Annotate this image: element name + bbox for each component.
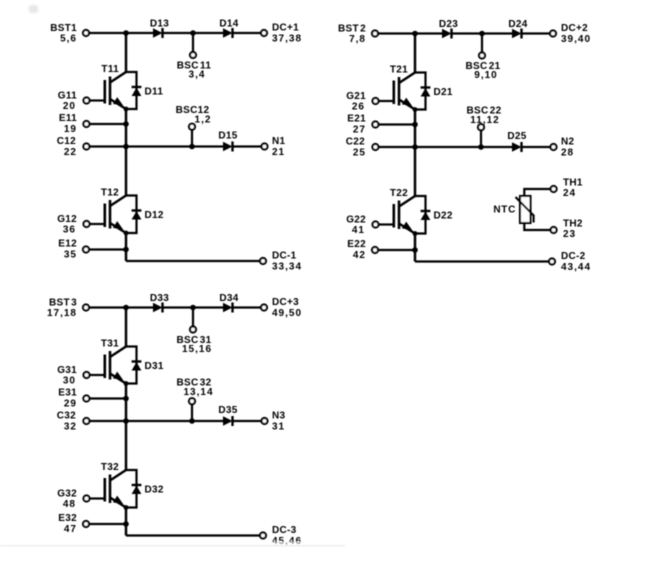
thermistor NTC body [520, 196, 531, 223]
svg-text:D35: D35 [218, 405, 237, 416]
svg-text:G12: G12 [57, 214, 77, 225]
svg-text:N2: N2 [561, 137, 575, 148]
svg-text:D21: D21 [434, 87, 453, 98]
wire BSC3 stub [192, 308, 194, 327]
node E31 junction [123, 396, 129, 402]
terminal BSC 21 pin 9,10 [465, 53, 500, 82]
svg-text:30: 30 [63, 376, 76, 387]
wire E11 lead [90, 123, 126, 125]
svg-text:BST1: BST1 [50, 23, 77, 34]
terminal E32 pin 47 [58, 513, 89, 535]
wire main vertical upper [414, 34, 417, 73]
wire D to DC+ [233, 32, 261, 34]
svg-text:17,18: 17,18 [47, 308, 77, 319]
transistor T31 (IGBT) [101, 339, 126, 384]
node C row BSC junction [189, 418, 195, 424]
terminal DC+3 pin 49,50 [261, 297, 302, 319]
svg-text:26: 26 [352, 102, 365, 113]
wire gate lead T32 [90, 497, 105, 499]
terminal N3 pin 31 [262, 411, 286, 433]
svg-text:D32: D32 [145, 485, 164, 496]
terminal C22 pin 25 [346, 137, 379, 159]
terminal E22 pin 42 [347, 239, 378, 261]
svg-text:19: 19 [64, 124, 77, 135]
svg-text:7,8: 7,8 [349, 34, 366, 45]
wire NTC to TH2 [524, 223, 550, 230]
terminal DC-1 pin 33,34 [260, 251, 302, 273]
terminal C12 pin 22 [57, 136, 90, 158]
svg-text:C12: C12 [57, 136, 76, 147]
wire D35 to N3 [233, 420, 262, 422]
svg-text:G11: G11 [58, 91, 77, 102]
svg-text:13,14: 13,14 [183, 387, 213, 398]
svg-text:DC+2: DC+2 [561, 23, 588, 34]
transistor T12 (IGBT) [101, 188, 126, 234]
node main top junction [412, 31, 418, 37]
wire gate lead T12 [90, 223, 105, 225]
diode D23 [439, 19, 458, 39]
svg-text:TH1: TH1 [563, 178, 583, 189]
svg-text:E21: E21 [347, 114, 366, 125]
terminal BST3 pin 17,18 [47, 298, 89, 320]
svg-text:D12: D12 [145, 210, 164, 221]
svg-text:E12: E12 [58, 239, 77, 250]
terminal N2 pin 28 [551, 137, 575, 159]
terminal DC+1 pin 37,38 [261, 23, 302, 45]
svg-text:DC-2: DC-2 [561, 251, 586, 262]
svg-text:G22: G22 [346, 215, 366, 226]
svg-text:D24: D24 [508, 19, 527, 30]
wire NTC to TH1 [524, 189, 550, 196]
wire DC-2 rail [415, 260, 549, 262]
svg-text:43,44: 43,44 [561, 262, 591, 273]
label NTC [493, 205, 516, 216]
diode D33 [150, 293, 169, 313]
diode D22 branch wire [413, 196, 426, 236]
svg-text:32: 32 [64, 422, 77, 433]
wire E21 lead [379, 123, 415, 125]
wire C32 row [90, 420, 223, 422]
wire main vertical middle [414, 110, 417, 197]
svg-text:G21: G21 [346, 91, 366, 102]
terminal BSC 31 pin 15,16 [176, 327, 212, 356]
wire D15 to N1 [233, 145, 262, 147]
diode D12 branch wire [124, 196, 137, 236]
svg-text:C32: C32 [57, 411, 76, 422]
svg-text:11,12: 11,12 [470, 115, 499, 126]
wire E31 lead [90, 397, 126, 399]
terminal BSC 32 pin 13,14 [176, 378, 213, 405]
node C row BSC junction [478, 144, 484, 150]
terminal G22 pin 41 [346, 215, 378, 237]
svg-text:E31: E31 [58, 388, 77, 399]
terminal BSC 22 pin 11,12 [466, 106, 501, 131]
terminal DC+2 pin 39,40 [550, 23, 591, 45]
svg-text:N1: N1 [272, 136, 286, 147]
svg-text:G32: G32 [57, 489, 77, 500]
wire E22 lead [379, 249, 415, 251]
svg-text:D22: D22 [434, 211, 453, 222]
wire D to BSC node [452, 32, 513, 34]
node BSC top junction [479, 31, 485, 37]
diode D13 [150, 19, 169, 39]
svg-text:1,2: 1,2 [195, 115, 212, 126]
diode D35 [218, 405, 237, 426]
wire BST to D33 [90, 306, 154, 308]
terminal DC-2 pin 43,44 [549, 251, 591, 273]
node E21 junction [412, 122, 418, 128]
wire gate lead T21 [379, 100, 394, 102]
svg-text:BST 3: BST 3 [49, 298, 77, 309]
terminal BSC 12 pin 1,2 [176, 105, 212, 130]
diode D11 [132, 87, 164, 98]
diode D21 branch wire [413, 73, 426, 112]
svg-text:D13: D13 [150, 19, 169, 30]
wire main vertical middle [125, 384, 128, 471]
terminal TH2 pin 23 [551, 219, 583, 241]
wire BSC2 stub [481, 34, 483, 53]
wire E32 lead [90, 523, 126, 525]
svg-text:23: 23 [563, 229, 576, 240]
svg-text:NTC: NTC [493, 205, 516, 216]
svg-text:15,16: 15,16 [182, 344, 212, 355]
wire BSC32 stub [191, 405, 193, 422]
terminal G32 pin 48 [57, 489, 89, 511]
diode D15 [218, 131, 237, 152]
node main top junction [123, 305, 129, 311]
svg-text:TH2: TH2 [563, 219, 583, 230]
svg-text:D15: D15 [218, 131, 237, 142]
svg-text:36: 36 [63, 225, 76, 236]
svg-text:47: 47 [64, 524, 77, 535]
thermistor NTC diagonal [516, 197, 534, 223]
diode D22 [421, 211, 453, 222]
node C row BSC junction [189, 144, 195, 150]
wire D25 to N2 [522, 146, 551, 148]
wire D to BSC node [163, 306, 224, 308]
diode D32 [132, 485, 164, 496]
svg-text:T21: T21 [390, 65, 408, 76]
svg-text:C22: C22 [346, 137, 365, 148]
terminal G11 pin 20 [58, 91, 90, 113]
svg-text:N3: N3 [272, 411, 286, 422]
scan artifact label fade [258, 542, 313, 547]
svg-text:T11: T11 [101, 64, 119, 75]
wire BST to D13 [90, 32, 154, 34]
diode D31 [132, 361, 164, 372]
svg-text:T12: T12 [101, 188, 119, 199]
svg-text:29: 29 [64, 399, 77, 410]
node BSC top junction [190, 305, 196, 311]
wire C12 row [90, 145, 223, 147]
terminal BST2 pin 7,8 [338, 24, 378, 46]
wire main vertical upper [125, 308, 128, 347]
node main top junction [123, 30, 129, 36]
wire BSC1 stub [192, 33, 194, 52]
svg-text:3,4: 3,4 [189, 70, 206, 81]
diode D11 branch wire [124, 72, 137, 111]
node C row main junction [123, 418, 129, 424]
scan artifact top-left [29, 5, 38, 13]
wire main vertical lower [125, 508, 128, 536]
diode D12 [132, 210, 164, 221]
wire BSC22 stub [480, 131, 482, 148]
wire gate lead T22 [379, 223, 394, 225]
svg-text:20: 20 [63, 101, 76, 112]
svg-text:D31: D31 [145, 361, 164, 372]
wire D to DC+ [522, 32, 550, 34]
terminal BSC 11 pin 3,4 [177, 52, 212, 81]
wire main vertical upper [125, 33, 128, 72]
wire DC-3 rail [126, 534, 260, 536]
wire D to DC+ [233, 306, 261, 308]
terminal N1 pin 21 [262, 136, 286, 158]
transistor T11 (IGBT) [101, 64, 126, 109]
wire C22 row [379, 146, 512, 148]
transistor T32 (IGBT) [101, 462, 126, 508]
node C row main junction [412, 144, 418, 150]
svg-text:DC+3: DC+3 [272, 297, 299, 308]
terminal E12 pin 35 [58, 239, 89, 261]
diode D21 [421, 87, 453, 98]
diode D24 [508, 19, 527, 39]
svg-text:BST 2: BST 2 [338, 24, 366, 35]
svg-text:31: 31 [272, 422, 285, 433]
terminal E11 pin 19 [59, 113, 90, 135]
wire DC-1 rail [126, 260, 260, 262]
wire gate lead T31 [90, 374, 105, 376]
node E32 junction [123, 521, 129, 527]
terminal BST1 pin 5,6 [50, 23, 89, 45]
svg-text:D11: D11 [145, 87, 164, 98]
svg-text:27: 27 [353, 125, 366, 136]
svg-text:DC-1: DC-1 [272, 251, 297, 262]
svg-text:22: 22 [64, 147, 77, 158]
terminal G21 pin 26 [346, 91, 378, 113]
svg-text:39,40: 39,40 [561, 34, 591, 45]
terminal DC-3 pin 45,46 [260, 525, 302, 547]
diode D25 [507, 131, 526, 152]
svg-text:21: 21 [272, 147, 285, 158]
scan artifact bottom rule [0, 545, 345, 547]
svg-text:48: 48 [63, 499, 76, 510]
terminal TH1 pin 24 [551, 178, 583, 200]
svg-text:T31: T31 [101, 339, 119, 350]
wire main vertical middle [125, 109, 128, 196]
wire main vertical lower [414, 234, 417, 262]
terminal G12 pin 36 [57, 214, 89, 236]
node BSC top junction [190, 30, 196, 36]
wire BSC12 stub [191, 130, 193, 147]
node E12 junction [123, 247, 129, 253]
terminal E21 pin 27 [347, 114, 378, 136]
svg-text:28: 28 [561, 148, 574, 159]
diode D34 [219, 293, 238, 313]
svg-text:D34: D34 [219, 293, 238, 304]
diode D14 [219, 19, 238, 39]
terminal C32 pin 32 [57, 411, 90, 433]
svg-text:33,34: 33,34 [272, 262, 302, 273]
svg-text:D25: D25 [507, 131, 526, 142]
svg-text:E11: E11 [59, 113, 77, 124]
diode D32 branch wire [124, 470, 137, 510]
svg-text:T22: T22 [390, 188, 408, 199]
svg-text:G31: G31 [57, 365, 77, 376]
svg-text:D33: D33 [150, 293, 169, 304]
svg-text:49,50: 49,50 [272, 308, 302, 319]
terminal E31 pin 29 [58, 388, 89, 410]
svg-text:T32: T32 [101, 462, 119, 473]
svg-text:24: 24 [563, 188, 576, 199]
svg-text:42: 42 [353, 250, 366, 261]
svg-text:E22: E22 [347, 239, 366, 250]
wire E12 lead [90, 248, 126, 250]
node C row main junction [123, 144, 129, 150]
svg-text:D14: D14 [219, 19, 238, 30]
terminal G31 pin 30 [57, 365, 89, 387]
svg-text:9,10: 9,10 [474, 70, 497, 81]
svg-text:25: 25 [353, 148, 366, 159]
wire D to BSC node [163, 32, 224, 34]
wire BST to D23 [379, 32, 443, 34]
diode D31 branch wire [124, 347, 137, 386]
node E11 junction [123, 121, 129, 127]
wire gate lead T11 [90, 99, 105, 101]
svg-text:E32: E32 [58, 513, 77, 524]
transistor T22 (IGBT) [390, 188, 415, 234]
transistor T21 (IGBT) [390, 65, 415, 110]
node E22 junction [412, 247, 418, 253]
svg-text:5,6: 5,6 [60, 34, 77, 45]
wire main vertical lower [125, 233, 128, 261]
svg-text:DC+1: DC+1 [272, 23, 299, 34]
svg-text:DC-3: DC-3 [272, 525, 297, 536]
svg-text:37,38: 37,38 [272, 34, 302, 45]
svg-text:41: 41 [352, 225, 365, 236]
svg-text:35: 35 [64, 250, 77, 261]
svg-text:D23: D23 [439, 19, 458, 30]
